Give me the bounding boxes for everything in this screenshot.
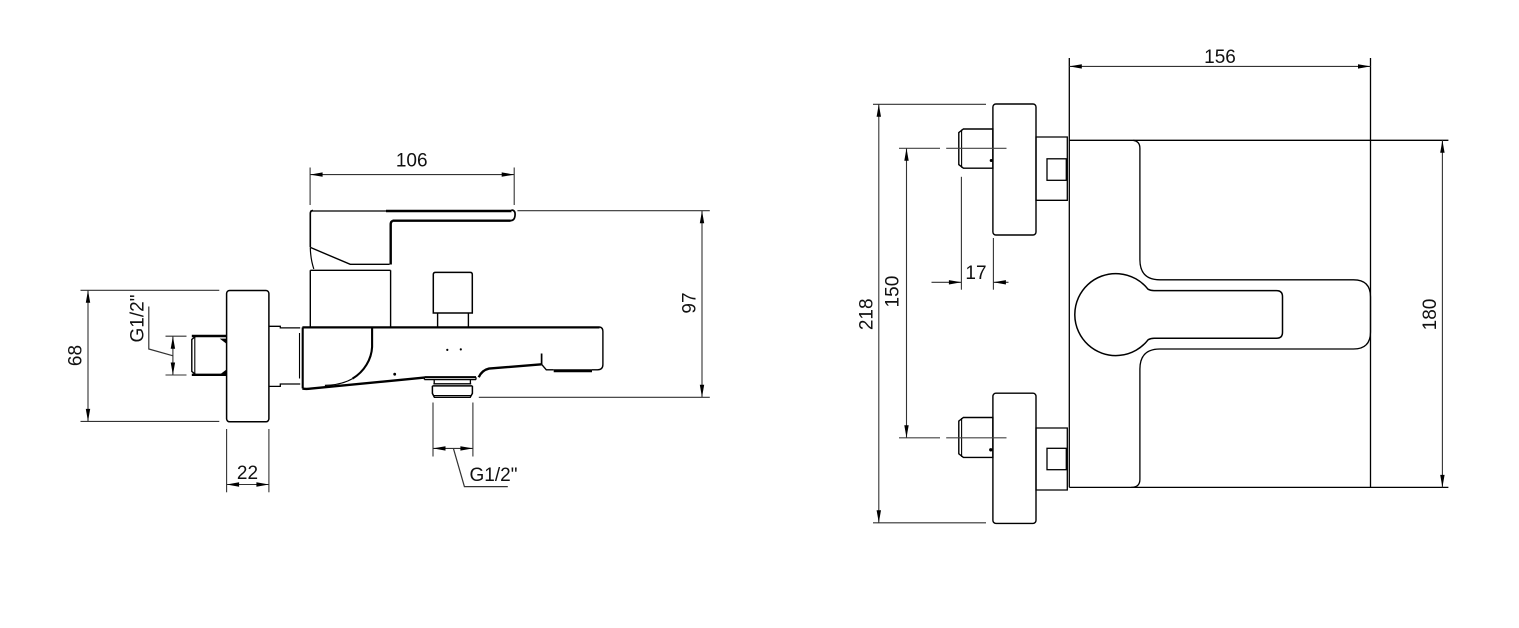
dimension 218 extension top	[873, 103, 986, 105]
aerator recess thick band	[554, 369, 592, 372]
dimension 17 extension right	[992, 238, 994, 290]
lever handle plate top edge thick part	[386, 210, 512, 212]
outlet cylinder mid line	[433, 395, 472, 397]
dimension 22 extension line right	[268, 429, 270, 492]
G1/2 lower leader diagonal and underline	[453, 448, 507, 486]
dimension 68 extension line top	[81, 289, 220, 291]
lower union nut	[959, 418, 993, 458]
dimension 97 extension line bottom	[479, 396, 710, 398]
lever handle right rounded end	[511, 210, 516, 221]
wall escutcheon plate (side view)	[227, 291, 269, 422]
dimension 106 line with arrows	[310, 172, 514, 176]
upper union nut face line	[961, 130, 963, 168]
connector piece right face	[299, 333, 301, 379]
G1/2 lower dimension line with arrows	[433, 446, 473, 450]
supply nipple bottom edge thick	[192, 374, 227, 376]
dimension 150 line with arrows	[904, 148, 908, 438]
upper wall plate	[993, 104, 1036, 235]
small G1/2 vertical dimension extension bottom	[166, 374, 187, 376]
supply nipple top edge thick	[192, 335, 227, 337]
diverter knob	[433, 272, 472, 313]
spout underside left slope thick	[302, 378, 424, 389]
dimension 218 extension bottom	[873, 522, 986, 524]
lower wall plate	[993, 393, 1036, 523]
spout end cap joint vertical	[541, 354, 543, 365]
G1/2 leader upper (rotated text underline and diagonal)	[149, 307, 173, 356]
body right edge with extension up	[1370, 58, 1372, 487]
svg-text:97: 97	[680, 292, 701, 313]
upper seat dot	[990, 159, 993, 162]
small G1/2 vertical dimension extension top	[166, 335, 187, 337]
lower union nut face line	[961, 418, 963, 457]
supply nipple body	[192, 336, 227, 375]
outlet upper ring	[433, 380, 471, 384]
handle base arc	[310, 248, 314, 269]
G1/2 lower dimension extension right	[472, 403, 474, 457]
spout underside right thin segment	[542, 364, 554, 370]
dimension 180 line with arrows	[1440, 140, 1444, 487]
dimension 17 extension left	[960, 177, 962, 290]
diverter knob stem	[438, 313, 469, 327]
dimension 68 extension line bottom	[81, 420, 220, 422]
lever handle plate top edge thin part	[310, 210, 386, 212]
handle neck sloped underside	[310, 247, 389, 264]
upper union nut	[959, 129, 993, 168]
body bottom edge with extension right	[1069, 486, 1448, 488]
lower seat dot	[989, 448, 992, 451]
body front edge arc	[353, 328, 373, 379]
svg-text:G1/2": G1/2"	[470, 465, 518, 486]
upper connector small square	[1047, 159, 1066, 181]
dimension 22 extension line left	[226, 429, 228, 492]
spout body top edge thick	[302, 326, 599, 328]
spout face dot 1	[393, 373, 396, 376]
svg-text:22: 22	[237, 463, 258, 484]
small G1/2 vertical dimension line with arrows	[171, 336, 175, 375]
svg-text:218: 218	[857, 298, 878, 330]
upper connector block	[1036, 137, 1067, 200]
body top edge with extension right	[1069, 139, 1448, 141]
handle keyhole (circle + lever stem)	[1075, 274, 1283, 356]
spout right end rounded outline	[592, 327, 603, 370]
dimension 97 extension line top	[517, 210, 709, 212]
dimension 22 line with arrows	[227, 482, 269, 486]
spout face dot 3	[460, 348, 462, 350]
body front edge arc lower thin	[325, 379, 353, 386]
lower connector small square	[1047, 448, 1066, 469]
dimension 218 line with arrows	[877, 104, 881, 523]
dimension 17 line with outside arrows	[932, 280, 1009, 284]
dimension 106 extension line right	[513, 168, 515, 206]
body inner contour upper	[1131, 140, 1370, 487]
nipple seat triangle bottom	[220, 370, 227, 375]
svg-text:150: 150	[883, 276, 904, 308]
handle neck left corner and left edge	[310, 210, 313, 247]
supply nipple inner face line	[194, 337, 196, 375]
outlet flange	[424, 377, 476, 379]
spout face dot 2	[446, 349, 448, 351]
spout left edge thick	[302, 327, 304, 388]
svg-text:17: 17	[965, 263, 986, 284]
handle neck right edge thick	[391, 221, 393, 265]
svg-text:156: 156	[1204, 47, 1236, 68]
cartridge housing	[310, 270, 390, 327]
body outline with merged extension lines: left edge	[1068, 58, 1070, 487]
dimension 68 line with arrows	[86, 290, 90, 421]
svg-text:68: 68	[66, 345, 87, 366]
dimension 97 line with arrows	[700, 211, 704, 398]
nipple seat triangle top	[220, 339, 227, 344]
dimension 156 line with arrows	[1069, 64, 1370, 68]
connector piece bottom stepped edge	[269, 384, 300, 386]
lever handle plate bottom edge thick	[393, 219, 511, 221]
upper centerline	[899, 147, 1007, 149]
lower connector block	[1036, 428, 1067, 490]
dimension 106 extension line left	[309, 168, 311, 206]
G1/2 lower dimension extension left	[432, 403, 434, 457]
outlet threaded cylinder	[432, 386, 472, 397]
connector piece top stepped edge	[269, 326, 300, 328]
spout underside slope thick	[479, 364, 542, 377]
lower centerline	[899, 437, 1007, 439]
svg-text:G1/2": G1/2"	[128, 295, 149, 343]
svg-text:106: 106	[396, 151, 428, 172]
svg-text:180: 180	[1420, 299, 1441, 331]
